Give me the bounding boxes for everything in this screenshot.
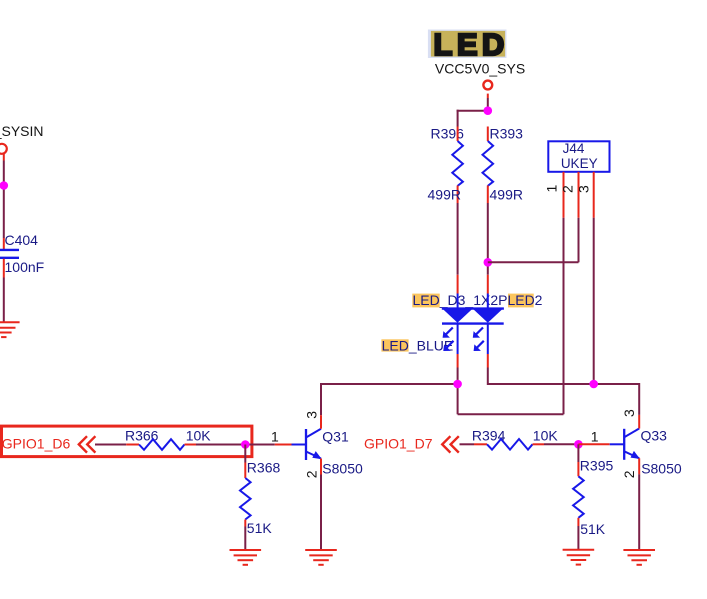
svg-text:S8050: S8050 — [322, 460, 363, 476]
svg-text:10K: 10K — [186, 428, 212, 444]
svg-text:2: 2 — [304, 470, 320, 478]
resistor R396 — [428, 126, 465, 203]
svg-text:LED_D3_1X2PLED2: LED_D3_1X2PLED2 — [413, 292, 543, 308]
svg-text:1: 1 — [591, 429, 599, 445]
resistor R394 — [472, 427, 558, 449]
LED D3 dual diode — [442, 275, 504, 368]
svg-text:Q33: Q33 — [641, 427, 668, 443]
node junction left rail — [0, 181, 8, 190]
node junction Q33 base / R395 — [574, 440, 583, 449]
resistor R393 — [482, 126, 523, 203]
wire R396 to LED anode 1 — [457, 203, 459, 275]
capacitor C404 — [0, 232, 44, 278]
transistor Q31 — [292, 415, 322, 474]
ground R368 — [230, 550, 262, 565]
node junction R393/J44 pin2 — [484, 258, 493, 267]
power symbol VCC5V0_SYSIN (left edge, clipped) — [0, 123, 44, 161]
ground Q31 emitter — [305, 550, 337, 565]
svg-text:499R: 499R — [490, 187, 523, 203]
wire Q31 emitter to ground — [320, 475, 322, 551]
transistor Q33 — [610, 415, 640, 474]
connector J44 UKEY — [548, 141, 609, 172]
wire chevron to R394 — [460, 443, 475, 445]
resistor R366 — [125, 428, 211, 450]
pin 1 of J44 — [563, 172, 565, 218]
svg-text:R368: R368 — [247, 460, 281, 476]
svg-text:_SYSIN: _SYSIN — [0, 123, 44, 139]
wire junction branch left — [457, 110, 489, 112]
svg-text:2: 2 — [560, 185, 576, 193]
svg-text:100nF: 100nF — [5, 259, 45, 275]
svg-text:2: 2 — [621, 470, 637, 478]
wire LED cathode1 to net1 — [457, 368, 459, 385]
net label LED_BLUE (highlighted LED) — [381, 338, 453, 354]
node junction net2 at J44 pin3 — [589, 380, 598, 389]
wire VCC to junction — [487, 98, 489, 111]
ground Q33 emitter — [623, 550, 655, 565]
svg-text:UKEY: UKEY — [561, 156, 598, 171]
wire Q33 emitter to ground — [638, 474, 640, 550]
wire J44 pin2 down — [578, 218, 580, 262]
wire Q33 collector vertical — [638, 383, 640, 415]
svg-text:R393: R393 — [490, 126, 524, 142]
node junction net1 at LED cathode1 — [453, 380, 462, 389]
port chevron GPIO1_D7 — [442, 436, 459, 452]
svg-text:10K: 10K — [533, 427, 559, 443]
wire net1 detour horizontal to J44 pin1 — [458, 413, 564, 415]
wire Q31 collector vertical — [320, 383, 322, 415]
pin 1 stub Q31 base — [275, 444, 292, 446]
wire C404 to ground — [3, 278, 5, 323]
GPIO1_D6 highlight box — [2, 426, 252, 457]
resistor R368 — [240, 445, 280, 537]
resistor R395 — [573, 444, 613, 537]
node junction Q31 base / R368 — [241, 440, 250, 449]
svg-text:51K: 51K — [247, 520, 273, 536]
wire R395 to ground — [577, 526, 579, 550]
svg-text:R396: R396 — [431, 126, 465, 142]
svg-text:VCC5V0_SYS: VCC5V0_SYS — [435, 60, 525, 76]
wire J44 pin1 down — [563, 218, 565, 414]
ground R395 — [563, 550, 595, 565]
svg-text:S8050: S8050 — [641, 460, 682, 476]
svg-text:51K: 51K — [580, 521, 606, 537]
svg-text:LED_BLUE: LED_BLUE — [382, 338, 454, 354]
wire net1 detour down — [457, 384, 459, 414]
svg-text:3: 3 — [621, 409, 637, 417]
svg-text:3: 3 — [576, 185, 592, 193]
wire chevron to R366 — [95, 444, 126, 446]
svg-text:499R: 499R — [428, 187, 461, 203]
wire J44 pin3 down — [593, 218, 595, 384]
svg-text:3: 3 — [304, 411, 320, 419]
port chevron GPIO1_D6 — [79, 436, 96, 452]
svg-text:GPIO1_D6: GPIO1_D6 — [2, 436, 71, 452]
wire R366 to Q31 base node — [196, 444, 275, 446]
svg-text:J44: J44 — [563, 141, 585, 156]
svg-text:LED: LED — [434, 27, 509, 62]
wire net2 horizontal (LED cathode2 to Q33 collector) — [488, 383, 639, 385]
wire R368 to ground — [244, 527, 246, 551]
ground left rail — [0, 322, 20, 337]
net label LED_D3_1X2PLED2 (highlighted LED) — [412, 292, 542, 308]
wire LED cathode2 to net2 — [487, 368, 489, 386]
power symbol VCC5V0_SYS — [435, 60, 525, 98]
svg-text:R395: R395 — [580, 458, 614, 474]
wire down to R396 — [457, 110, 459, 127]
svg-text:Q31: Q31 — [322, 428, 349, 444]
pin 2 of J44 — [578, 172, 580, 218]
node junction at VCC rail — [484, 106, 493, 115]
svg-text:1: 1 — [544, 185, 560, 193]
wire R394 to Q33 base node — [544, 443, 578, 445]
wire J44 pin2 horizontal to R393 net — [488, 261, 579, 263]
wire net1 horizontal (Q31 collector to LED cathode1) — [321, 383, 458, 385]
wire left rail to C404 — [3, 161, 5, 239]
svg-text:GPIO1_D7: GPIO1_D7 — [364, 436, 433, 452]
pin 1 stub Q33 base — [578, 443, 609, 445]
title label LED (highlighted) — [428, 27, 509, 62]
svg-text:C404: C404 — [5, 232, 39, 248]
pin 3 of J44 — [593, 172, 595, 218]
svg-text:1: 1 — [271, 429, 279, 445]
wire R393 to LED anode 2 — [487, 203, 489, 275]
